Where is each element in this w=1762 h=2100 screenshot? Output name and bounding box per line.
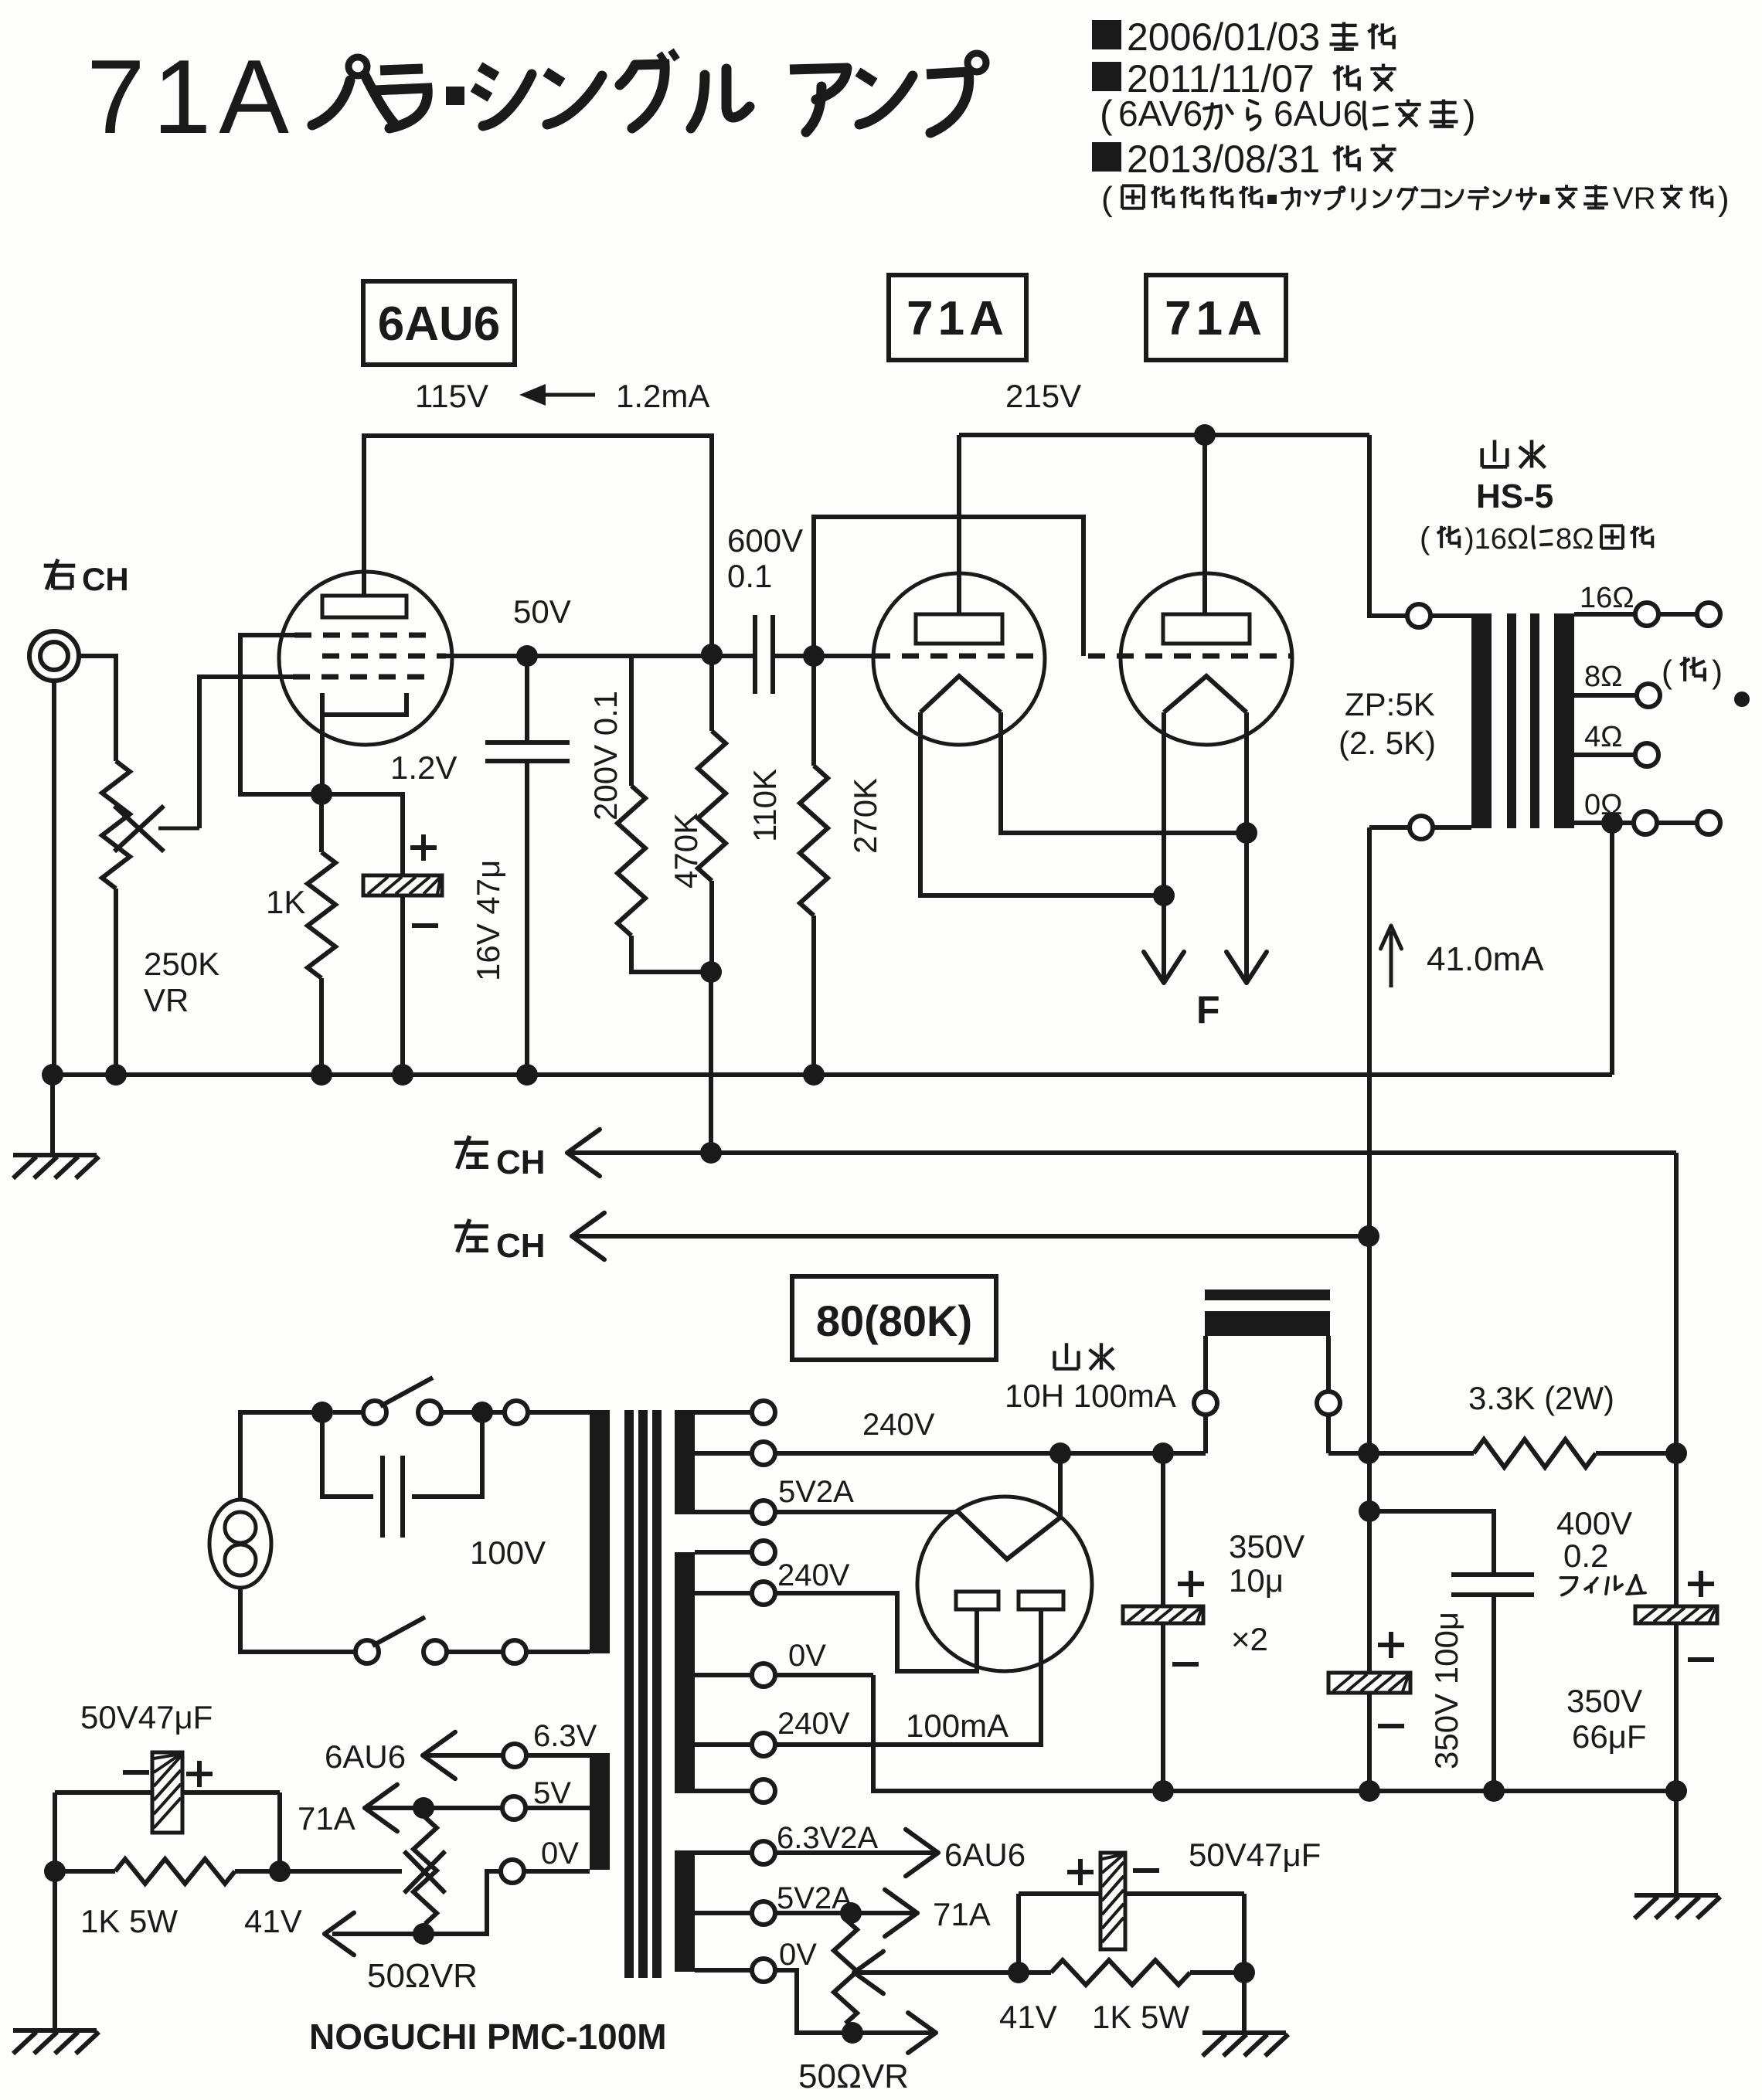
svg-text:16V 47μ: 16V 47μ <box>470 860 506 981</box>
node right 50ohm VR bottom dot <box>842 2022 863 2044</box>
tube V1 grid rows dashed <box>293 635 446 677</box>
svg-text:)16Ω: )16Ω <box>1464 523 1529 556</box>
choke L1 winding bar <box>1205 1311 1330 1336</box>
svg-text:400V: 400V <box>1556 1505 1632 1541</box>
svg-text:6AU6: 6AU6 <box>1274 93 1362 134</box>
transformer T-PWR HV winding bar right top <box>675 1410 695 1514</box>
tube V2 plate <box>916 614 1002 644</box>
svg-text:CH: CH <box>496 1227 546 1265</box>
tube V4 filament <box>958 1512 1060 1559</box>
label 400V 0.2 film <box>1556 1505 1632 1574</box>
svg-text:115V: 115V <box>415 378 488 414</box>
node ground rail dots <box>42 1064 63 1086</box>
wire V3 filament right down to F arrow <box>1226 712 1267 983</box>
node negative rail dots <box>1152 1780 1174 1802</box>
capacitor 600V 0.1 coupling <box>755 615 773 694</box>
svg-text:1K: 1K <box>266 884 305 920</box>
svg-text:240V: 240V <box>862 1408 935 1442</box>
svg-text:200V 0.1: 200V 0.1 <box>587 691 624 821</box>
wire hum pot bottom arrow left <box>325 1913 423 1956</box>
wire negative rail of power supply <box>873 1675 1676 1791</box>
svg-text:): ) <box>1712 654 1723 690</box>
wire V1 screen grid to cathode node <box>240 635 321 794</box>
resistor 1K 5W left <box>115 1859 235 1884</box>
terminal primary bottom with stub <box>503 1640 590 1663</box>
wire mains plug top to switch <box>240 1412 322 1500</box>
wire bias block sides right <box>1016 1894 1021 1973</box>
wire B+ rail choke to 3.3K <box>1328 1451 1474 1456</box>
polarity plus of 66uF <box>1688 1582 1714 1586</box>
node left 50ohm VR bottom dot <box>413 1923 434 1945</box>
wire 3.3K to final node <box>1596 1451 1676 1456</box>
label 250K VR <box>144 946 219 1018</box>
svg-text:10μ: 10μ <box>1229 1562 1284 1599</box>
tube V2 grid dashed <box>873 654 890 659</box>
wire V4 filament to B+ rail <box>1058 1453 1063 1517</box>
node left 50ohm VR top dot <box>413 1797 434 1819</box>
node switch line dot left <box>311 1402 333 1423</box>
svg-text:470K: 470K <box>668 813 704 889</box>
polarity plus of left 50V47uF <box>186 1772 213 1776</box>
svg-text:6.3V: 6.3V <box>533 1719 597 1753</box>
polarity minus of 10u <box>1172 1662 1199 1667</box>
node B+ rail dots <box>1049 1442 1071 1464</box>
wire 240V tap to V4 right plate <box>774 1609 1041 1745</box>
transformer T-OUT secondary winding bar <box>1554 613 1574 828</box>
svg-text:110K: 110K <box>747 769 783 842</box>
potentiometer 50 ohm VR right hum balance <box>834 1919 857 2024</box>
revision note line 2: 2011/11/07 kaizou <box>1092 57 1396 100</box>
wiper of 250K VR <box>114 806 199 851</box>
switch SW1a upper contacts <box>333 1378 471 1424</box>
resistor 470K <box>617 656 711 972</box>
polarity minus of 100u <box>1378 1724 1404 1728</box>
label ZP:5K (2.5K) <box>1339 686 1436 761</box>
svg-text:41.0mA: 41.0mA <box>1427 940 1544 978</box>
wire V3 filament left down to F arrow <box>1144 712 1184 983</box>
choke L1 core bar <box>1205 1290 1330 1300</box>
lamp pilot mains <box>209 1500 271 1588</box>
svg-text:(: ( <box>1101 180 1113 218</box>
svg-text:(: ( <box>1662 654 1672 690</box>
svg-text:71A: 71A <box>1165 292 1267 345</box>
polarity minus of right 50V47uF <box>1133 1868 1159 1873</box>
svg-text:600V: 600V <box>727 522 803 559</box>
svg-text:240V: 240V <box>777 1558 850 1592</box>
svg-text:0V: 0V <box>779 1938 817 1972</box>
svg-text:2006/01/03: 2006/01/03 <box>1127 15 1320 59</box>
tube label box 71A second <box>1146 275 1286 360</box>
wire 6.3V2A to left channel 6AU6 heaters <box>774 1830 938 1876</box>
label 350V 66uF <box>1566 1683 1647 1755</box>
svg-text:1K 5W: 1K 5W <box>80 1903 178 1939</box>
svg-text:6AV6: 6AV6 <box>1118 93 1202 134</box>
svg-text:50V: 50V <box>513 593 571 630</box>
wire main ground rail <box>53 1072 1612 1077</box>
tube label box 80(80K) <box>792 1276 996 1360</box>
label hidari CH 1 <box>454 1136 546 1181</box>
svg-text:5V2A: 5V2A <box>778 1475 854 1509</box>
node left channel 2 dot at B+ riser <box>1358 1225 1379 1247</box>
wire 215V rail over 71A tubes <box>959 435 1369 614</box>
polarity plus of 10u <box>1178 1582 1204 1586</box>
transformer T-PWR heater winding bar right bottom <box>675 1850 695 1972</box>
svg-text:80(80K): 80(80K) <box>816 1296 972 1345</box>
capacitor 400V 0.2 film <box>1369 1511 1534 1791</box>
wire 5V2A to left channel 71A filaments <box>774 1890 917 1936</box>
svg-text:71A: 71A <box>933 1896 991 1932</box>
svg-text:VR: VR <box>1613 182 1656 216</box>
svg-text:50ΩVR: 50ΩVR <box>367 1957 478 1995</box>
label note 16 ohm ni 8 ohm load <box>1420 522 1652 556</box>
label migi CH right channel <box>44 559 129 597</box>
svg-text:(: ( <box>1420 522 1430 556</box>
svg-text:): ) <box>1463 93 1476 136</box>
wire coupling cap to 71A no.1 grid <box>773 654 873 658</box>
tube V4 plate left <box>956 1592 998 1609</box>
label hidari CH 2 <box>454 1219 546 1265</box>
ground symbol main <box>13 1075 99 1178</box>
wire 5V to 71A filament arrow <box>365 1785 503 1831</box>
revision note line 5: power supply / coupling cap / input VR replaced <box>1101 180 1730 218</box>
svg-text:CH: CH <box>82 561 129 597</box>
wire secondary 0 ohm tap <box>1574 811 1720 834</box>
svg-text:250K: 250K <box>144 946 219 982</box>
note bullet dot <box>1734 692 1750 707</box>
wire secondary 16 ohm tap <box>1574 603 1720 626</box>
tube V2 71A envelope <box>873 573 1045 745</box>
svg-text:6AU6: 6AU6 <box>378 297 501 351</box>
transformer T-PWR primary winding bar <box>590 1410 610 1653</box>
node 1K5W left dots <box>44 1860 66 1882</box>
svg-text:71A: 71A <box>298 1800 355 1837</box>
annotation arrow 1.2mA plate current <box>519 384 595 406</box>
svg-text:71A: 71A <box>87 38 297 155</box>
svg-text:4Ω: 4Ω <box>1584 721 1623 753</box>
terminal primary bottom and wire to B+ <box>1369 816 1471 1453</box>
svg-text:(2. 5K): (2. 5K) <box>1339 725 1436 761</box>
ground symbol right bias <box>1202 2030 1286 2035</box>
wire jack hot to volume <box>79 656 116 761</box>
ground symbol left bias <box>13 2028 97 2033</box>
capacitor 350V 10u x2 first filter electrolytic <box>1123 1453 1203 1791</box>
polarity minus of 16V47u <box>412 923 438 928</box>
terminal spare <box>695 1779 775 1803</box>
node right 50ohm VR top dot <box>840 1902 862 1924</box>
svg-text:8Ω: 8Ω <box>1584 661 1623 693</box>
svg-text:1.2mA: 1.2mA <box>616 378 709 414</box>
terminal 0V left with stub <box>501 1860 590 1883</box>
resistor 1K 5W right <box>1051 1960 1190 1985</box>
svg-text:×2: ×2 <box>1231 1621 1268 1657</box>
label 600V 0.1 coupling cap value <box>727 522 803 594</box>
tube V1 plate <box>322 596 406 617</box>
transformer T-OUT primary winding bar <box>1471 613 1492 828</box>
node 470K/110K bottom junction <box>700 961 722 983</box>
capacitor 350V 100u second filter electrolytic <box>1328 1453 1410 1791</box>
wire cathode node to bypass cap <box>321 794 403 875</box>
transformer T-PWR heater winding bar left <box>590 1753 610 1870</box>
wire grid feed to 71A no.2 <box>814 517 1083 656</box>
wiper of left 50 ohm VR <box>280 1851 445 1893</box>
wire 5V2A tap to V4 filament <box>774 1510 958 1514</box>
terminal 6.3V left with stub <box>503 1744 590 1767</box>
svg-text:(: ( <box>1100 93 1113 136</box>
node filament junction dots <box>1153 885 1175 906</box>
wire to ground right bias <box>1242 1973 1247 2032</box>
label 350V 10u x2 <box>1229 1528 1304 1657</box>
choke L1 right lead and terminal <box>1317 1336 1340 1453</box>
annotation arrow 41.0mA <box>1381 926 1402 987</box>
svg-text:71A: 71A <box>907 292 1009 345</box>
tube V3 71A envelope <box>1121 573 1292 745</box>
svg-text:41V: 41V <box>244 1903 302 1939</box>
wire bias block top right <box>1019 1891 1244 1896</box>
svg-text:50V47μF: 50V47μF <box>1189 1837 1321 1873</box>
node 0 ohm junction dot <box>1601 812 1623 834</box>
svg-text:270K: 270K <box>847 778 883 854</box>
terminal 5V left with stub <box>502 1796 590 1820</box>
wire 0V HV centre to negative rail <box>774 1673 873 1677</box>
terminal 6.3V2A right <box>695 1841 775 1864</box>
svg-text:215V: 215V <box>1005 378 1081 414</box>
node 1K5W right dots <box>1008 1962 1029 1983</box>
svg-text:0.1: 0.1 <box>727 558 772 594</box>
svg-text:HS-5: HS-5 <box>1476 477 1553 515</box>
svg-text:0V: 0V <box>788 1639 826 1673</box>
svg-text:ZP:5K: ZP:5K <box>1345 686 1435 722</box>
wire mains plug bottom to lower switch <box>240 1588 356 1652</box>
svg-text:10H 100mA: 10H 100mA <box>1005 1378 1176 1414</box>
wire secondary 4 ohm tap <box>1574 743 1658 766</box>
capacitor 200V 0.1 <box>485 656 570 1075</box>
svg-text:350V: 350V <box>1566 1683 1642 1719</box>
wiper of right 50 ohm VR <box>854 1952 1019 1994</box>
svg-text:100V: 100V <box>470 1534 546 1571</box>
node coupling cap output junction dot <box>803 645 825 667</box>
wire 215V rail down to output transformer primary top <box>1369 435 1408 616</box>
wire 6AU6 output row to coupling cap <box>446 654 755 658</box>
wire hum pot bottom arrow right <box>852 2013 936 2053</box>
tube V1 cathode <box>322 693 406 715</box>
capacitor 50V 47uF left electrolytic <box>152 1752 182 1833</box>
svg-text:8Ω: 8Ω <box>1556 523 1594 556</box>
svg-text:CH: CH <box>496 1143 546 1181</box>
wire secondary 8 ohm tap <box>1574 684 1660 707</box>
switch SW1b lower contacts <box>355 1617 504 1663</box>
label Sansui HS-5 <box>1476 440 1553 515</box>
transformer T-PWR HV winding bar right middle <box>675 1552 695 1793</box>
polarity minus of left 50V47uF <box>123 1770 149 1775</box>
input jack right channel <box>29 631 79 681</box>
terminal 240V top right <box>695 1401 775 1424</box>
resistor 1K cathode <box>308 794 335 1075</box>
terminal 5V return <box>695 1541 775 1564</box>
wire jack sleeve to ground rail <box>52 681 56 1075</box>
wire left channel feed 1 <box>567 1130 1676 1176</box>
svg-text:240V: 240V <box>777 1707 850 1741</box>
revision note line 4: 2013/08/31 kaizou <box>1092 138 1396 181</box>
tube V3 filament <box>1164 676 1247 712</box>
svg-text:0.2: 0.2 <box>1563 1538 1608 1574</box>
polarity plus of 100u <box>1378 1643 1404 1647</box>
wire left channel 1 feed down to B+ node <box>1674 1153 1679 1453</box>
svg-text:41V: 41V <box>999 1999 1057 2035</box>
terminal 0V lower right <box>695 1959 775 1982</box>
svg-text:16Ω: 16Ω <box>1580 582 1634 614</box>
svg-text:350V: 350V <box>1229 1528 1304 1565</box>
wire V1 control grid to volume wiper <box>199 677 293 828</box>
svg-text:350V 100μ: 350V 100μ <box>1428 1612 1464 1769</box>
capacitor 16V 47u bypass electrolytic <box>363 875 442 895</box>
svg-text:100mA: 100mA <box>906 1708 1009 1744</box>
transformer T-PWR core lines <box>624 1410 634 1978</box>
wire 0V left to hum pot bottom <box>423 1871 502 1934</box>
wire 66uF to ground symbol <box>1634 1791 1720 1918</box>
terminal HV to choke rail <box>695 1442 775 1465</box>
svg-text:6AU6: 6AU6 <box>944 1837 1026 1873</box>
choke L1 left lead and terminal <box>1194 1336 1217 1453</box>
wire 6AU6 plate to 115V rail <box>364 436 712 654</box>
wire V1 cathode down <box>320 715 325 794</box>
wire V2 filament left to V3 <box>920 712 1164 895</box>
wire bias block sides left <box>53 1792 57 1871</box>
wire bias block top left <box>55 1790 280 1795</box>
resistor 270K grid leak 71A <box>800 656 828 1075</box>
tube label box 6AU6 <box>363 281 515 365</box>
capacitor 50V 47uF right electrolytic <box>1100 1853 1125 1949</box>
wire V2 filament right to V3 <box>1001 712 1247 833</box>
svg-text:VR: VR <box>144 982 189 1018</box>
title text 71A para-single amp <box>87 38 986 155</box>
terminal 5V2A lower right <box>695 1901 775 1925</box>
node 110K top junction dot <box>701 644 723 665</box>
terminal 240V HV upper <box>695 1582 775 1605</box>
wire to ground left bias <box>53 1871 57 2030</box>
polarity minus of 66uF <box>1688 1657 1714 1662</box>
node B+ branch dot to film cap <box>1359 1500 1380 1522</box>
wire bias divider down to left channel feed <box>709 972 713 1153</box>
svg-text:5V: 5V <box>533 1776 571 1810</box>
svg-text:3.3K (2W): 3.3K (2W) <box>1468 1380 1614 1416</box>
node switch cap dot right <box>471 1402 493 1423</box>
tube label box 71A first <box>889 275 1026 360</box>
tube V2 filament <box>920 676 1001 712</box>
svg-text:1.2V: 1.2V <box>390 749 457 786</box>
potentiometer 250K VR <box>102 761 130 1075</box>
svg-text:66μF: 66μF <box>1572 1718 1647 1755</box>
note mark chu beside 8 ohm <box>1662 654 1723 690</box>
svg-text:): ) <box>1718 180 1730 218</box>
tube V4 80 rectifier envelope <box>917 1497 1092 1671</box>
wire 0V lower to hum pot return <box>774 1970 852 2033</box>
polarity plus of right 50V47uF <box>1067 1870 1094 1874</box>
node 50V junction dot <box>516 645 538 667</box>
wire B+ rail from rectifier to choke <box>774 1451 1206 1456</box>
wire 6.3V to 6AU6 heater arrow <box>423 1732 504 1779</box>
node 215V rail dot at 71A no.2 plate <box>1194 424 1216 446</box>
terminal primary top with stub <box>505 1401 590 1424</box>
svg-text:NOGUCHI PMC-100M: NOGUCHI PMC-100M <box>309 2017 667 2057</box>
revision note line 1: 2006/01/03 seisaku <box>1092 15 1394 59</box>
terminal primary top <box>1407 604 1471 627</box>
capacitor spark across switch <box>322 1412 482 1538</box>
transformer T-OUT core lines <box>1507 613 1516 828</box>
polarity plus of 16V47u <box>410 845 437 850</box>
wire left channel feed 2 <box>572 1213 1369 1259</box>
svg-text:50V47μF: 50V47μF <box>80 1699 213 1735</box>
resistor 110K <box>698 654 726 972</box>
node left channel 1 dot <box>700 1142 722 1164</box>
terminal 240V HV lower <box>695 1733 775 1756</box>
svg-text:1K 5W: 1K 5W <box>1092 1999 1189 2035</box>
label Sansui choke 10H 100mA <box>1005 1343 1176 1414</box>
tube V4 plate right <box>1019 1592 1063 1609</box>
svg-text:6.3V2A: 6.3V2A <box>777 1821 879 1855</box>
terminal 5V2A rectifier filament <box>695 1500 775 1524</box>
svg-text:2013/08/31: 2013/08/31 <box>1127 138 1320 181</box>
tube V1 6AU6 envelope <box>279 572 452 745</box>
svg-text:6AU6: 6AU6 <box>325 1738 406 1775</box>
svg-text:0V: 0V <box>541 1837 579 1871</box>
wire 240V tap to V4 left plate <box>774 1593 977 1671</box>
svg-text:F: F <box>1196 988 1220 1031</box>
svg-text:50ΩVR: 50ΩVR <box>798 2058 909 2095</box>
capacitor 350V 66uF output filter electrolytic <box>1635 1453 1717 1791</box>
resistor 3.3K 2W dropper <box>1474 1439 1596 1467</box>
node cathode junction dot <box>311 783 332 805</box>
revision note line 3: (6AV6 to 6AU6 change) <box>1100 93 1476 136</box>
wire 0 ohm to ground rail <box>1610 823 1614 1075</box>
potentiometer 50 ohm VR left hum balance <box>413 1817 437 1924</box>
terminal 0V HV centre <box>695 1663 775 1687</box>
label firumu katakana <box>1561 1575 1646 1595</box>
tube V3 plate <box>1163 614 1250 644</box>
tube V3 grid dashed <box>1088 654 1105 659</box>
